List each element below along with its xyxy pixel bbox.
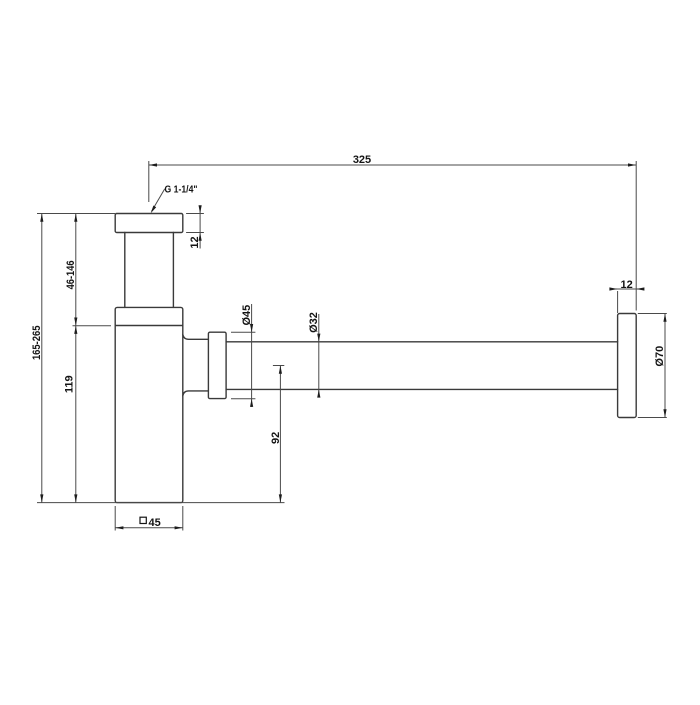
svg-text:119: 119 [64, 375, 76, 393]
dimension line dia 70 [664, 314, 666, 418]
arrow 325 left [149, 163, 157, 166]
arrow square 45 left [115, 526, 123, 529]
svg-text:12: 12 [620, 279, 632, 291]
extension lines square 45 [115, 506, 183, 531]
arrow 325 right [628, 163, 636, 166]
arrow 92 bottom [279, 494, 282, 502]
arrow flange 12 left [609, 287, 617, 290]
dimension line dia 45 [251, 304, 253, 407]
extension tick at body collar [73, 325, 112, 327]
dimension line 325 [149, 164, 636, 166]
arrow square 45 right [175, 526, 183, 529]
extension ticks dia 70 [638, 314, 667, 418]
svg-text:G 1-1/4": G 1-1/4" [165, 185, 198, 196]
arrow dia 32 bottom [317, 389, 320, 397]
horizontal outlet pipe [226, 342, 617, 390]
svg-text:165-265: 165-265 [31, 326, 43, 361]
dimension line flange 12 [610, 288, 643, 290]
arrow flange 12 right [636, 287, 644, 290]
arrow 165-265 top [40, 214, 43, 222]
inlet cap flange (G 1-1/4") [115, 214, 183, 233]
arrow dia 70 bottom [663, 409, 666, 417]
svg-text:46-146: 46-146 [65, 260, 77, 289]
dimension line 92 [279, 366, 281, 503]
extension line top (cap top level) [37, 213, 115, 215]
svg-text:12: 12 [189, 236, 201, 248]
svg-text:Ø70: Ø70 [654, 346, 666, 367]
arrow 165-265 bottom [40, 494, 43, 502]
svg-text:Ø45: Ø45 [241, 305, 253, 326]
dimension line 165-265 [41, 214, 43, 503]
centerline tick 92 [273, 365, 284, 367]
extension line bottom (body bottom level) [37, 502, 285, 504]
extension line flange 12 left [617, 291, 619, 313]
arrow dia 45 top [250, 324, 253, 332]
outlet nut [208, 332, 226, 398]
arrow dia 45 bottom [250, 399, 253, 407]
arrow dia 70 top [663, 314, 666, 322]
arrow 119 bottom [74, 494, 77, 502]
arrow 46-146 top [74, 214, 77, 222]
svg-text:92: 92 [270, 432, 282, 444]
trap body [115, 307, 183, 502]
arrow 92 top [279, 366, 282, 374]
arrow cap 12 top [199, 205, 202, 213]
inlet vertical pipe [125, 233, 174, 308]
arrow cap 12 bottom [199, 233, 202, 241]
svg-text:Ø32: Ø32 [308, 312, 320, 333]
svg-text:325: 325 [353, 154, 371, 166]
extension line 325 left [148, 161, 150, 202]
arrow dia 32 top [317, 334, 320, 342]
extension ticks dia 45 [231, 332, 255, 399]
dimension line dia 32 [318, 314, 320, 397]
arrow 46-146 bottom [74, 318, 77, 326]
extension ticks cap thickness 12 [186, 214, 204, 233]
wall flange [618, 314, 637, 418]
body collar line [115, 325, 183, 327]
arrow 119 top [74, 326, 77, 334]
svg-text:45: 45 [149, 517, 161, 529]
dimension line cap 12 [199, 207, 201, 249]
leader arrow G 1-1/4 [151, 206, 157, 214]
outlet neck [183, 334, 209, 396]
label square 45 symbol [140, 517, 146, 523]
leader line G 1-1/4 [152, 189, 165, 211]
dimension line 46-146 and 119 [75, 214, 77, 503]
extension line 325 right [635, 161, 637, 311]
dimension line square 45 [115, 527, 183, 529]
